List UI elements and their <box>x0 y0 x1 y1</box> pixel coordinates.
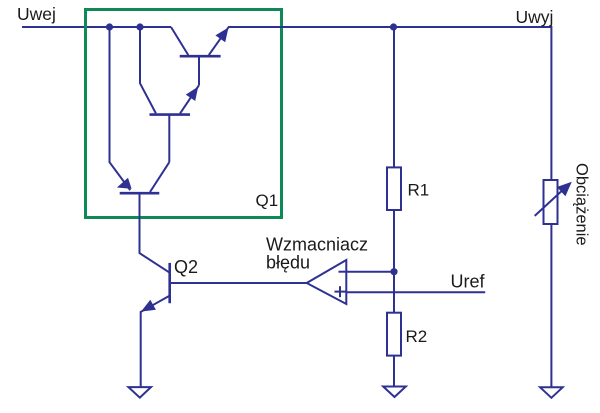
wire: load to ground <box>550 224 552 387</box>
transistor T3 base bar <box>120 192 160 195</box>
svg-text:Uwyj: Uwyj <box>516 7 554 27</box>
ground symbol below Q2 <box>128 387 151 398</box>
svg-text:R1: R1 <box>408 181 430 200</box>
wire: output rail down to R1 <box>393 27 395 167</box>
svg-text:R2: R2 <box>406 327 428 346</box>
node junction dot left <box>106 23 113 30</box>
transistor Q2 base bar <box>168 263 171 303</box>
svg-text:Uwej: Uwej <box>17 4 56 24</box>
transistor T2 emitter <box>180 85 199 113</box>
wire: input rail Uwej <box>22 26 171 28</box>
transistor Q2 emitter <box>141 296 170 387</box>
svg-text:Wzmacniacz: Wzmacniacz <box>266 235 368 255</box>
wire: inverting input to divider node <box>346 271 394 273</box>
wire: R2 to ground <box>393 356 395 387</box>
transistor T1 emitter <box>209 26 229 55</box>
op-amp minus sign <box>339 271 346 273</box>
load resistor box <box>544 180 558 224</box>
transistor Q1 package box (green) <box>86 10 282 218</box>
wire: non-inverting input to Uref <box>346 291 485 293</box>
load arrow (variable) <box>535 187 566 216</box>
op-amp U1 triangle <box>307 260 347 304</box>
svg-text:Q1: Q1 <box>256 191 279 210</box>
op-amp plus sign <box>335 291 346 293</box>
svg-text:Uref: Uref <box>451 272 486 292</box>
svg-text:Q2: Q2 <box>174 257 198 277</box>
svg-text:błędu: błędu <box>266 253 310 273</box>
transistor T1 collector <box>171 27 188 55</box>
transistor T3 emitter <box>110 27 131 190</box>
transistor T1 base lead <box>198 56 200 85</box>
node junction dot right <box>136 23 143 30</box>
node divider junction dot <box>390 268 397 275</box>
transistor T2 collector <box>140 27 156 113</box>
transistor T3 collector <box>150 162 169 192</box>
resistor R1 <box>387 167 401 210</box>
svg-text:Obciążenie: Obciążenie <box>573 163 591 246</box>
transistor Q2 base lead / wire to op-amp output <box>170 282 307 284</box>
wire: R1 to node <box>393 210 395 272</box>
ground symbol below R2 <box>383 387 406 398</box>
transistor T3 base lead / wire to Q2 <box>140 193 170 273</box>
wire: output rail Uwyj <box>229 27 551 180</box>
node junction dot output rail <box>390 23 397 30</box>
transistor T2 base lead <box>168 115 170 163</box>
transistor T1 base bar <box>180 55 221 58</box>
resistor R2 <box>387 313 401 356</box>
ground symbol below load <box>540 387 563 398</box>
transistor T2 base bar <box>150 113 191 116</box>
wire: node to R2 <box>393 272 395 313</box>
